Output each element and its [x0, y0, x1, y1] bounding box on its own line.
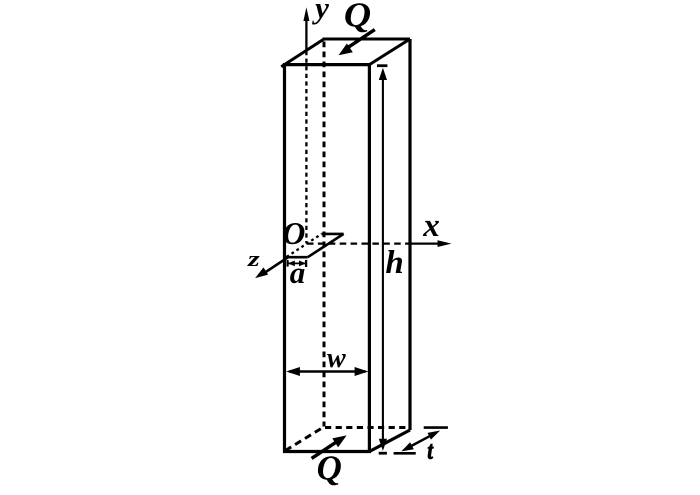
dimension a right tick	[305, 260, 307, 267]
dimension h top arrowhead	[379, 68, 387, 80]
dimension a left arrowhead	[288, 261, 295, 267]
hidden bottom-back edge (dashed)	[325, 426, 409, 429]
electrode square top edge	[322, 233, 344, 236]
bottom Q arrowhead	[332, 435, 346, 447]
svg-text:w: w	[327, 343, 346, 374]
svg-text:x: x	[422, 208, 440, 244]
dimension w left arrowhead	[286, 367, 300, 376]
electrode square hidden left edge (dotted)	[287, 234, 322, 257]
x axis arrowhead	[438, 240, 452, 247]
dimension h shaft	[382, 79, 384, 441]
dimension a left tick	[287, 260, 289, 267]
top back edge	[323, 38, 411, 41]
front face of plate	[285, 65, 370, 452]
dimension h top tick	[377, 64, 387, 67]
bottom shear force Q arrow shaft	[312, 442, 337, 459]
dimension t upper-right arrowhead	[428, 431, 441, 440]
electrode square bottom edge	[286, 256, 308, 259]
svg-text:Q: Q	[317, 448, 342, 487]
svg-text:Q: Q	[344, 0, 371, 34]
z axis arrowhead	[255, 267, 268, 278]
dimension t upper tick	[424, 426, 448, 429]
dimension w arrow shaft	[289, 370, 366, 372]
x axis solid segment	[411, 242, 439, 244]
hidden back-left vertical edge (dashed)	[323, 42, 326, 427]
top Q arrowhead	[339, 44, 353, 56]
svg-text:a: a	[290, 255, 306, 290]
dimension h bottom arrowhead	[379, 439, 387, 451]
dimension t lower-left arrowhead	[401, 442, 414, 451]
dimension t arrow shaft	[411, 436, 430, 446]
dimension a right arrowhead	[299, 261, 306, 267]
z axis shaft	[264, 257, 288, 273]
top shear force Q arrow shaft	[348, 30, 375, 48]
dimension w right arrowhead	[355, 367, 369, 376]
y axis hidden segment (dashed)	[305, 51, 307, 243]
top face left edge	[281, 39, 324, 67]
back right vertical edge	[408, 39, 411, 430]
svg-text:z: z	[247, 247, 261, 271]
y axis solid segment	[305, 13, 307, 51]
dimension h bottom tick	[379, 452, 387, 455]
top face right edge	[369, 39, 410, 65]
x axis hidden segment (dashed)	[307, 242, 411, 244]
y axis arrowhead	[303, 7, 309, 21]
svg-text:h: h	[385, 245, 403, 281]
svg-text:O: O	[282, 215, 305, 251]
dimension t lower tick	[394, 452, 416, 455]
bottom face right edge	[369, 430, 410, 452]
svg-text:t: t	[427, 437, 433, 465]
dimension a arrow shaft	[288, 262, 305, 264]
hidden bottom-left edge (dashed)	[285, 427, 324, 451]
electrode square right edge	[308, 234, 344, 257]
